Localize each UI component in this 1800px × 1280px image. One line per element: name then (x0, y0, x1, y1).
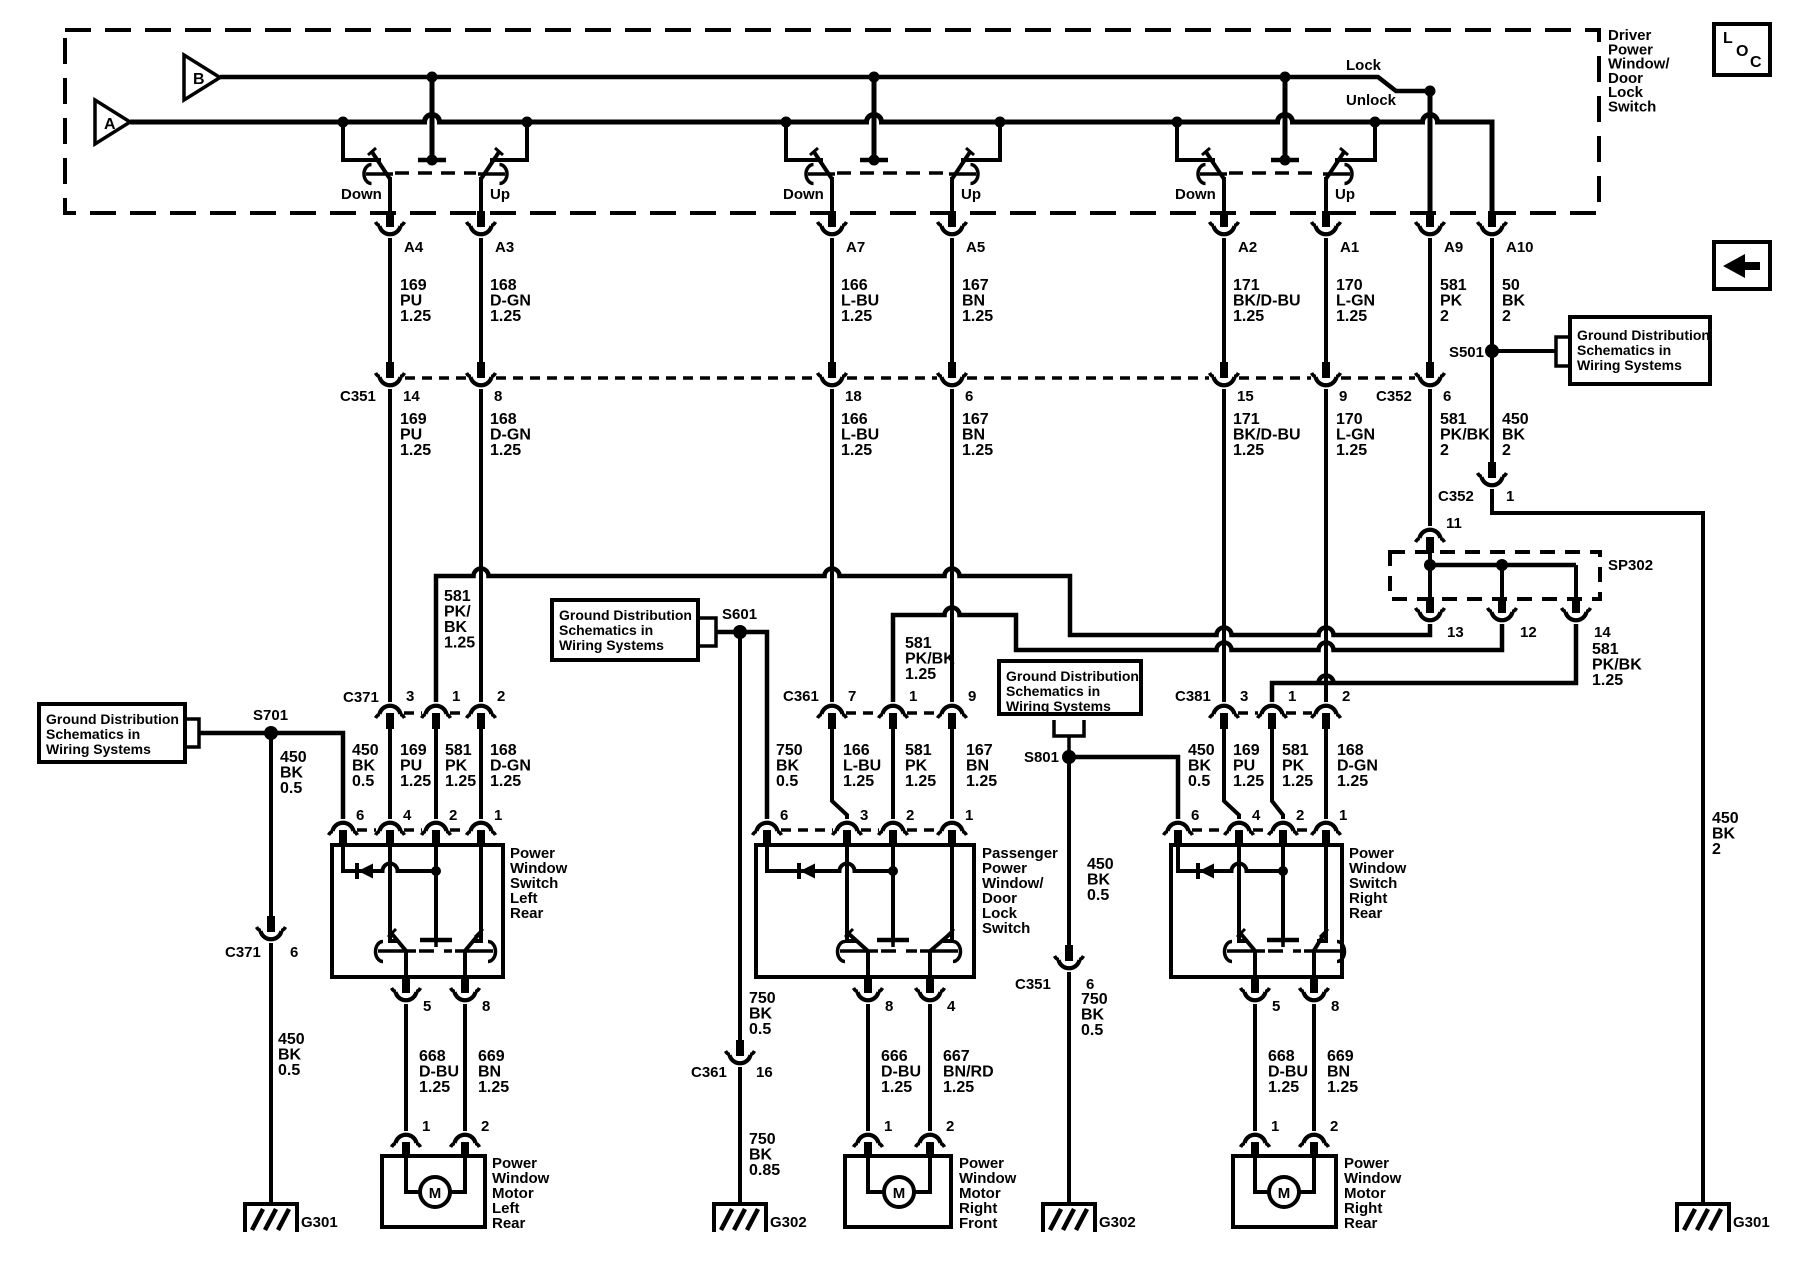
switch pin 6 (box 2) (753, 823, 782, 846)
svg-text:C352: C352 (1438, 488, 1474, 505)
svg-text:450: 450 (1188, 742, 1215, 759)
wire circuit A (battery feed) (130, 115, 1492, 211)
svg-text:2: 2 (1712, 841, 1721, 858)
switch blade right (box 1) (472, 846, 481, 941)
svg-text:BN: BN (962, 427, 985, 444)
power window switch body (box 2) (756, 845, 974, 977)
connector C352 pin 1 (1478, 462, 1507, 485)
svg-text:1.25: 1.25 (1268, 1079, 1299, 1096)
motor 1 pin 1 connector (392, 1135, 421, 1158)
node diode to common (box 1) (431, 866, 441, 876)
wire switch outputs to connector (pair 1) (388, 177, 392, 211)
svg-text:1: 1 (1271, 1118, 1279, 1135)
connector C361 pin 9 (938, 706, 967, 729)
switch pin 4 (box 1) (376, 823, 405, 846)
svg-text:Ground Distribution: Ground Distribution (1577, 327, 1710, 343)
svg-text:1.25: 1.25 (881, 1079, 912, 1096)
svg-text:6: 6 (356, 807, 364, 824)
svg-text:167: 167 (962, 277, 989, 294)
wire 169 PU (C351-14 to C371-3) (388, 389, 392, 702)
svg-text:L-BU: L-BU (843, 758, 881, 775)
svg-text:581: 581 (905, 742, 932, 759)
wire 168 D-GN (C381-2 to switch pin 1) (1324, 729, 1328, 819)
svg-text:14: 14 (1594, 624, 1611, 641)
svg-text:2: 2 (1330, 1118, 1338, 1135)
wire 169 PU (A4 to C351-14) (388, 238, 392, 362)
svg-text:1: 1 (1339, 807, 1347, 824)
svg-text:1: 1 (884, 1118, 892, 1135)
svg-text:6: 6 (780, 807, 788, 824)
wire 750 BK (S601 to C361-16) (738, 632, 742, 1040)
svg-text:8: 8 (482, 998, 490, 1015)
svg-text:750: 750 (749, 1131, 776, 1148)
switch blade left (box 1) (390, 846, 399, 941)
switch pin 6 (box 1) (329, 823, 358, 846)
svg-text:S701: S701 (253, 707, 288, 724)
connector C371 pin 1 (422, 706, 451, 729)
svg-text:3: 3 (860, 807, 868, 824)
wire 166 L-BU (C351-18 to C361-7) (830, 389, 834, 702)
pin A9 connector (1416, 211, 1445, 234)
pin A7 connector (818, 211, 847, 234)
switch blade Up (pair 1) (481, 152, 499, 179)
wire 581 PK (A9 to C352-6) (1428, 238, 1432, 362)
switch blade right (box 2) (943, 846, 952, 941)
wire 750 BK (C361-16 to G302) (738, 1067, 742, 1204)
svg-text:0.5: 0.5 (352, 773, 374, 790)
wire S701 to left rear switch pin 6 (199, 733, 343, 819)
svg-text:BK: BK (352, 758, 376, 775)
svg-text:1.25: 1.25 (841, 442, 872, 459)
svg-text:A3: A3 (495, 239, 514, 256)
switch output pin 8 (box 2) (854, 977, 883, 1000)
window switch pair 3: feed wires from circuit A (1177, 122, 1215, 160)
svg-text:G301: G301 (1733, 1214, 1770, 1231)
motor 2 internal wiring (868, 1158, 884, 1192)
power window motor body (motor 1) (382, 1156, 485, 1227)
wire switch outputs to connector (pair 3) (1222, 177, 1226, 211)
switch blade right (box 3) (1317, 846, 1326, 941)
diode (box 3) (1198, 863, 1214, 879)
switch blade left (box 3) (1239, 846, 1248, 941)
svg-text:581: 581 (444, 588, 471, 605)
common wire and contact bar (box 1) (434, 846, 438, 938)
svg-text:BN: BN (962, 293, 985, 310)
svg-text:750: 750 (749, 990, 776, 1007)
motor 1 internal wiring (406, 1158, 420, 1192)
svg-text:L-BU: L-BU (841, 427, 879, 444)
wire 581 PK/BK bus (SP302-12 to C361-1) (893, 608, 1502, 702)
svg-text:169: 169 (400, 742, 427, 759)
svg-text:166: 166 (841, 411, 868, 428)
ground distribution reference box (S701) (39, 704, 185, 762)
node splice joint SP302-12 (1496, 559, 1508, 571)
svg-text:668: 668 (419, 1048, 446, 1065)
svg-text:16: 16 (756, 1064, 773, 1081)
switch pin 1 (box 1) (467, 823, 496, 846)
svg-text:A: A (104, 116, 116, 133)
svg-text:Wiring Systems: Wiring Systems (559, 637, 664, 653)
wire 169 PU (C381-3 to switch pin 4, jog) (1224, 729, 1239, 819)
diode feed wire (box 2) (767, 845, 893, 871)
pin A3 connector (467, 211, 496, 234)
svg-text:A5: A5 (966, 239, 985, 256)
wire 669 (switch to motor 3 pin 2) (1312, 1004, 1316, 1131)
svg-text:A7: A7 (846, 239, 865, 256)
pin A4 connector (376, 211, 405, 234)
svg-text:1.25: 1.25 (400, 308, 431, 325)
svg-text:PK: PK (1282, 758, 1305, 775)
svg-text:2: 2 (1502, 308, 1511, 325)
svg-text:L-GN: L-GN (1336, 427, 1375, 444)
connector C371 pin 3 (376, 706, 405, 729)
switch output pin 8 (box 3) (1300, 977, 1329, 1000)
svg-text:Rear: Rear (492, 1215, 526, 1232)
svg-text:2: 2 (1342, 688, 1350, 705)
svg-text:BK: BK (280, 765, 304, 782)
svg-text:1: 1 (494, 807, 502, 824)
back-arrow box (1714, 242, 1770, 289)
motor 3 symbol M (1269, 1177, 1299, 1207)
connector row C381 dashed mating line (1238, 711, 1258, 715)
mechanical linkage (box 2) (881, 949, 917, 953)
ground distribution reference box (S501) (1570, 317, 1710, 384)
svg-text:A1: A1 (1340, 239, 1359, 256)
svg-text:1.25: 1.25 (1337, 773, 1368, 790)
svg-text:PK: PK (905, 758, 928, 775)
connector C371 pin 6 (257, 916, 286, 939)
svg-text:9: 9 (1339, 388, 1347, 405)
svg-text:171: 171 (1233, 411, 1260, 428)
pin A10 connector (1478, 211, 1507, 234)
connector C381 pin 3 (1210, 706, 1239, 729)
wire 668 (switch to motor 1 pin 1) (404, 1004, 408, 1131)
svg-text:450: 450 (1712, 810, 1739, 827)
connector C361 pin 16 (726, 1040, 755, 1063)
svg-text:4: 4 (947, 998, 956, 1015)
wire SP302 bus to pin 14 (1574, 565, 1578, 597)
svg-text:D-BU: D-BU (1268, 1064, 1308, 1081)
svg-text:O: O (1736, 43, 1748, 60)
svg-text:BK/D-BU: BK/D-BU (1233, 293, 1301, 310)
svg-text:S801: S801 (1024, 749, 1059, 766)
driver power window/door lock switch dashed enclosure (65, 30, 1599, 213)
svg-text:2: 2 (481, 1118, 489, 1135)
svg-text:C351: C351 (1015, 976, 1051, 993)
svg-text:8: 8 (494, 388, 502, 405)
window switch pair 2: feed wires from circuit A (786, 122, 823, 160)
common wire and contact bar (box 2) (891, 846, 895, 938)
svg-text:1.25: 1.25 (1282, 773, 1313, 790)
splice bus inside SP302 (1430, 563, 1576, 568)
svg-text:C371: C371 (343, 689, 379, 706)
svg-text:12: 12 (1520, 624, 1537, 641)
svg-text:C361: C361 (691, 1064, 727, 1081)
diode (box 1) (357, 863, 373, 879)
svg-text:1.25: 1.25 (943, 1079, 974, 1096)
svg-text:PK/BK: PK/BK (1592, 657, 1642, 674)
svg-text:BK: BK (1712, 826, 1736, 843)
switch blade Up (pair 3) (1326, 152, 1344, 179)
connector triangle A (95, 100, 130, 144)
node S801 (1062, 750, 1076, 764)
svg-text:0.85: 0.85 (749, 1162, 780, 1179)
wire 581 PK/BK bus (SP302-13 to C371-1) (436, 569, 1430, 703)
switch blade Down (pair 2) (814, 152, 832, 179)
ground G301 (245, 1204, 297, 1232)
svg-text:2: 2 (946, 1118, 954, 1135)
wire S601 to passenger switch pin 6 (716, 632, 767, 819)
svg-text:Down: Down (783, 186, 824, 203)
connector C351 pin 14 (376, 362, 405, 385)
svg-text:SP302: SP302 (1608, 557, 1653, 574)
svg-text:168: 168 (1337, 742, 1364, 759)
svg-text:D-GN: D-GN (490, 758, 531, 775)
wire 170 L-GN (A1 to C351-9) (1324, 238, 1328, 362)
svg-text:1.25: 1.25 (419, 1079, 450, 1096)
motor 1 pin 2 connector (451, 1135, 480, 1158)
diode feed wire (box 3) (1178, 845, 1283, 871)
svg-text:6: 6 (1191, 807, 1199, 824)
svg-text:0.5: 0.5 (278, 1062, 300, 1079)
wire 167 BN (A5 to C351-6) (950, 238, 954, 362)
connector C381 pin 2 (1312, 706, 1341, 729)
wire 750 BK (C351-6 to G302) (1067, 972, 1071, 1204)
svg-text:0.5: 0.5 (1081, 1022, 1103, 1039)
svg-text:D-GN: D-GN (490, 427, 531, 444)
ground G301 (1677, 1204, 1729, 1232)
svg-text:Up: Up (490, 186, 510, 203)
svg-text:M: M (429, 1185, 442, 1202)
svg-text:11: 11 (1446, 515, 1462, 532)
svg-text:BK: BK (1081, 1007, 1105, 1024)
wire 581 PK (C381-1 to switch pin 2, jog) (1272, 729, 1283, 819)
connector SP302 pin 13 (1416, 597, 1445, 620)
ground distribution reference box (S801) (999, 661, 1141, 714)
svg-text:168: 168 (490, 742, 517, 759)
svg-text:750: 750 (776, 742, 803, 759)
svg-text:1: 1 (452, 688, 460, 705)
switch blade Up (pair 2) (952, 152, 970, 179)
svg-text:Schematics in: Schematics in (1577, 342, 1671, 358)
svg-text:50: 50 (1502, 277, 1520, 294)
svg-text:2: 2 (449, 807, 457, 824)
svg-text:6: 6 (1443, 388, 1451, 405)
svg-text:C351: C351 (340, 388, 376, 405)
svg-text:1.25: 1.25 (1592, 672, 1623, 689)
svg-text:2: 2 (1440, 308, 1449, 325)
wire 581 PK (C371-1 to switch pin 2) (434, 729, 438, 819)
svg-text:C381: C381 (1175, 688, 1211, 705)
svg-text:Up: Up (961, 186, 981, 203)
svg-text:581: 581 (905, 635, 932, 652)
svg-text:667: 667 (943, 1048, 970, 1065)
svg-text:Down: Down (1175, 186, 1216, 203)
svg-text:Down: Down (341, 186, 382, 203)
svg-text:8: 8 (885, 998, 893, 1015)
svg-text:1.25: 1.25 (478, 1079, 509, 1096)
svg-text:BN/RD: BN/RD (943, 1064, 994, 1081)
connector row C371 dashed mating line (404, 711, 422, 715)
svg-text:666: 666 (881, 1048, 908, 1065)
ground G302 (714, 1204, 766, 1232)
svg-text:5: 5 (1272, 998, 1280, 1015)
wire switch outputs to connector (pair 2) (830, 177, 834, 211)
window switch pair 1: common feed from circuit B (430, 77, 435, 158)
page locator box L-O-C (1714, 24, 1770, 75)
wire 171 BK/D-BU (C351-15 to C381-3) (1222, 389, 1226, 702)
node S601 (733, 625, 747, 639)
switch blade Down (pair 1) (372, 152, 390, 179)
svg-text:BK: BK (1087, 872, 1111, 889)
wire 168 D-GN (A3 to C351-8) (479, 238, 483, 362)
svg-text:1.25: 1.25 (1327, 1079, 1358, 1096)
wire lock/unlock output to pin A9 (1428, 91, 1433, 211)
svg-text:Rear: Rear (510, 905, 544, 922)
power window motor body (motor 2) (845, 1156, 951, 1227)
svg-text:S501: S501 (1449, 344, 1484, 361)
svg-text:2: 2 (906, 807, 914, 824)
svg-text:1.25: 1.25 (1336, 442, 1367, 459)
svg-text:1: 1 (422, 1118, 430, 1135)
svg-text:166: 166 (841, 277, 868, 294)
switch pin 3 (box 2) (833, 823, 862, 846)
connector C351 pin 9 (1312, 362, 1341, 385)
svg-text:1.25: 1.25 (490, 308, 521, 325)
svg-text:669: 669 (1327, 1048, 1354, 1065)
svg-text:2: 2 (497, 688, 505, 705)
svg-text:PU: PU (1233, 758, 1255, 775)
svg-text:A9: A9 (1444, 239, 1463, 256)
switch row dashed mating line (box 2) (781, 828, 833, 832)
switch output pin 5 (box 3) (1241, 977, 1270, 1000)
svg-text:13: 13 (1447, 624, 1464, 641)
motor 2 symbol M (884, 1177, 914, 1207)
ground distribution reference box (S601) (552, 600, 698, 660)
svg-text:2: 2 (1440, 442, 1449, 459)
mechanical linkage (pair 1) (395, 171, 476, 175)
connector C381 pin 1 (1258, 706, 1287, 729)
svg-text:Schematics in: Schematics in (1006, 683, 1100, 699)
svg-text:6: 6 (290, 944, 298, 961)
svg-text:BK: BK (749, 1006, 773, 1023)
svg-text:668: 668 (1268, 1048, 1295, 1065)
svg-text:1.25: 1.25 (962, 308, 993, 325)
connector C351 pin 6 (ground lead) (1055, 945, 1084, 968)
mechanical linkage (box 3) (1268, 949, 1301, 953)
svg-text:Wiring Systems: Wiring Systems (1006, 698, 1111, 714)
svg-text:Schematics in: Schematics in (46, 726, 140, 742)
svg-text:A2: A2 (1238, 239, 1257, 256)
wire 581 PK (C361-1 to switch pin 2) (891, 729, 895, 819)
power window switch body (box 3) (1171, 845, 1342, 977)
svg-text:BK: BK (278, 1047, 302, 1064)
connector C352 pin 11 (1416, 530, 1445, 553)
svg-text:1.25: 1.25 (905, 773, 936, 790)
connector SP302 pin 12 (1488, 597, 1517, 620)
svg-text:170: 170 (1336, 277, 1363, 294)
svg-text:BN: BN (966, 758, 989, 775)
svg-text:PK: PK (1440, 293, 1463, 310)
window switch pair 3: common contact bar (1271, 158, 1299, 163)
svg-text:Ground Distribution: Ground Distribution (559, 607, 692, 623)
svg-text:BK/D-BU: BK/D-BU (1233, 427, 1301, 444)
svg-text:4: 4 (403, 807, 412, 824)
connector C361 pin 1 (879, 706, 908, 729)
svg-text:Switch: Switch (1608, 99, 1656, 116)
connector triangle B (184, 55, 220, 100)
switch output wires (box 2) (866, 951, 870, 977)
motor 2 pin 1 connector (854, 1135, 883, 1158)
svg-text:1: 1 (1288, 688, 1296, 705)
svg-text:169: 169 (1233, 742, 1260, 759)
wire 169 PU (C371-3 to switch pin 4) (388, 729, 392, 819)
svg-text:450: 450 (280, 749, 307, 766)
switch pin 2 (box 3) (1269, 823, 1298, 846)
wire 166 L-BU (C361-7 to switch pin 3, jog) (832, 729, 847, 819)
splice pack SP302 dashed enclosure (1390, 552, 1600, 599)
svg-text:L-GN: L-GN (1336, 293, 1375, 310)
svg-text:1.25: 1.25 (400, 773, 431, 790)
svg-text:BN: BN (1327, 1064, 1350, 1081)
svg-text:C371: C371 (225, 944, 261, 961)
wire 581 PK/BK (SP302-14 to C381-1) (1272, 624, 1576, 702)
svg-text:Unlock: Unlock (1346, 92, 1397, 109)
window switch pair 1: common contact bar (418, 158, 446, 163)
bracket to ground distribution box (S701) (185, 719, 199, 747)
svg-text:L-BU: L-BU (841, 293, 879, 310)
wire 669 (switch to motor 1 pin 2) (463, 1004, 467, 1131)
svg-text:Up: Up (1335, 186, 1355, 203)
switch blade Down (pair 3) (1206, 152, 1224, 179)
svg-text:D-BU: D-BU (881, 1064, 921, 1081)
svg-text:581: 581 (1592, 641, 1619, 658)
connector SP302 pin 14 (1562, 597, 1591, 620)
wire 50 BK (A10 to S501) (1490, 238, 1494, 462)
svg-text:1.25: 1.25 (843, 773, 874, 790)
switch row dashed mating line (box 3) (1192, 828, 1225, 832)
svg-text:Wiring Systems: Wiring Systems (46, 741, 151, 757)
connector row C351/C352 dashed mating line (405, 376, 466, 380)
svg-text:1.25: 1.25 (444, 635, 475, 652)
svg-text:1.25: 1.25 (1233, 308, 1264, 325)
mechanical linkage (pair 2) (837, 171, 947, 175)
switch output pin 5 (box 1) (392, 977, 421, 1000)
svg-text:Ground Distribution: Ground Distribution (1006, 668, 1139, 684)
wire 170 L-GN (C351-9 to C381-2) (1324, 389, 1328, 702)
window switch pair 2: common contact bar (860, 158, 888, 163)
svg-text:170: 170 (1336, 411, 1363, 428)
bracket to ground distribution box (S601) (698, 618, 716, 646)
svg-text:3: 3 (406, 688, 414, 705)
bracket to ground distribution box (S801) (1054, 720, 1084, 736)
wire 171 BK/D-BU (A2 to C351-15) (1222, 238, 1226, 362)
svg-text:C352: C352 (1376, 388, 1412, 405)
wire 666 (switch to motor 2 pin 1) (866, 1004, 870, 1131)
svg-text:168: 168 (490, 277, 517, 294)
wire 450 BK (S801 to C351-6) (1067, 757, 1071, 945)
svg-text:L: L (1723, 30, 1733, 47)
svg-text:1.25: 1.25 (905, 666, 936, 683)
switch pin 1 (box 3) (1312, 823, 1341, 846)
svg-text:450: 450 (1087, 856, 1114, 873)
wire S501 to ground distribution reference (1492, 349, 1556, 353)
mechanical linkage (pair 3) (1229, 171, 1321, 175)
switch output wires (box 1) (404, 951, 408, 977)
svg-text:1.25: 1.25 (841, 308, 872, 325)
svg-text:168: 168 (490, 411, 517, 428)
motor 3 internal wiring (1255, 1158, 1269, 1192)
